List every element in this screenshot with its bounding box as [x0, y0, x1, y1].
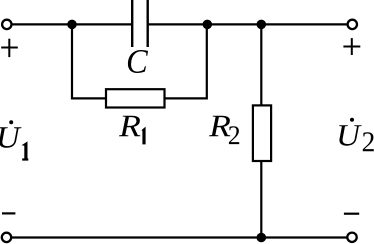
polarity plus right	[343, 38, 360, 55]
label U2 subscript 2	[363, 132, 374, 151]
label R1 letter R	[119, 116, 140, 136]
wire right of R1 up to top rail	[165, 24, 207, 98]
terminal top-right	[348, 20, 357, 29]
polarity minus right	[344, 213, 359, 215]
label R1 subscript 1	[141, 127, 145, 145]
resistor R1 body	[106, 89, 165, 107]
label U1 derivative dot	[9, 120, 13, 124]
terminal top-left	[2, 20, 11, 29]
node junction top C	[257, 20, 267, 30]
label U2 letter U	[339, 125, 362, 145]
label U2 derivative dot	[350, 118, 354, 122]
label R2 letter R	[209, 116, 230, 136]
polarity minus left	[2, 212, 15, 214]
wire bottom rail	[11, 236, 349, 238]
node junction top B	[203, 20, 213, 30]
capacitor C plates	[132, 0, 148, 47]
terminal bottom-right	[347, 233, 356, 242]
label U1 letter U	[0, 127, 21, 147]
label U1 subscript 1	[22, 141, 29, 160]
wire left branch vertical	[72, 24, 106, 98]
terminal bottom-left	[2, 233, 11, 242]
label C	[128, 50, 148, 73]
node junction top A	[67, 20, 77, 30]
polarity plus left	[1, 39, 18, 57]
wire top rail right segment	[149, 23, 348, 25]
wire R2 bottom lead	[260, 161, 262, 237]
node junction bottom	[257, 233, 267, 243]
wire R2 top lead	[260, 24, 262, 106]
resistor R2 body	[253, 105, 271, 161]
wire top rail left segment	[7, 23, 131, 25]
label R2 subscript 2	[229, 126, 239, 144]
